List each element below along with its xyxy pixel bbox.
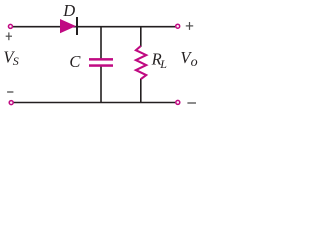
svg-text:o: o [191, 55, 198, 70]
terminal top-left [8, 24, 12, 28]
terminal bottom-left [9, 101, 13, 105]
wire resistor bottom branch [140, 79, 142, 103]
wire capacitor top branch [100, 27, 102, 59]
capacitor C plates [89, 58, 113, 67]
wire resistor top branch [140, 27, 142, 47]
wire bottom [13, 102, 175, 104]
svg-text:S: S [13, 54, 19, 68]
diode D [60, 17, 78, 35]
label V_S [3, 47, 18, 68]
minus sign (V_o −) [187, 102, 196, 104]
terminal top-right [176, 24, 180, 28]
minus sign (V_S −) [7, 91, 13, 93]
plus sign (V_S +) [6, 32, 12, 40]
plus sign (V_o +) [186, 22, 193, 30]
svg-text:L: L [159, 57, 167, 71]
wire top [13, 26, 176, 28]
terminal bottom-right [176, 100, 180, 104]
wire capacitor bottom branch [100, 67, 102, 103]
svg-text:C: C [69, 52, 81, 71]
resistor R_L zigzag [136, 46, 146, 79]
label R_L [151, 50, 168, 71]
svg-text:D: D [62, 1, 75, 20]
label V_o [180, 48, 197, 70]
